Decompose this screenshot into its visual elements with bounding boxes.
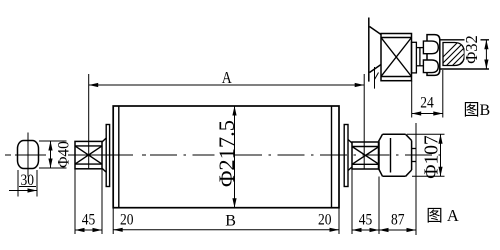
svg-text:45: 45 [359,212,373,229]
svg-text:20: 20 [120,212,134,229]
svg-text:A: A [222,68,233,87]
svg-text:Φ32: Φ32 [462,35,481,64]
svg-text:Φ217.5: Φ217.5 [214,120,239,187]
svg-text:B: B [225,213,236,230]
svg-text:45: 45 [82,212,96,229]
svg-text:Φ40: Φ40 [56,141,73,168]
svg-text:30: 30 [21,172,35,189]
svg-text:Φ107: Φ107 [422,135,443,179]
svg-text:图 A: 图 A [426,206,459,225]
svg-text:87: 87 [391,212,405,229]
svg-text:20: 20 [318,212,332,229]
svg-text:图B: 图B [464,102,491,119]
svg-text:24: 24 [420,95,434,112]
